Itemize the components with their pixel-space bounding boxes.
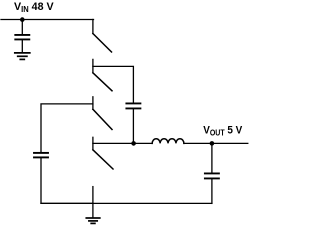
capacitor COUT xyxy=(205,173,219,178)
switch S2 terminal stub xyxy=(92,59,94,72)
wire node A branch to CFLY top xyxy=(93,66,133,102)
switch S3 terminal stub xyxy=(92,97,94,110)
capacitor C1 xyxy=(34,153,48,158)
node SW junction dot xyxy=(131,141,136,146)
svg-text:VOUT 5 V: VOUT 5 V xyxy=(203,124,242,137)
wire SW node to inductor xyxy=(93,142,152,144)
wire C1 bottom lead to ground rail xyxy=(41,158,92,203)
ground (input) xyxy=(15,53,30,60)
wire bottom ground rail xyxy=(41,202,212,204)
capacitor CFLY xyxy=(126,103,140,108)
wire CFLY bottom lead xyxy=(132,109,134,143)
switch S2 arm xyxy=(93,73,112,91)
inductor L1 xyxy=(152,139,184,144)
node VOUT junction dot xyxy=(210,141,215,146)
svg-text:VIN 48 V: VIN 48 V xyxy=(14,1,54,14)
switch S3 arm xyxy=(93,109,112,129)
wire node B branch to C1 xyxy=(41,104,93,152)
wire CIN bottom lead xyxy=(21,40,23,52)
switch S4 lower terminal stub to ground rail xyxy=(92,187,94,204)
wire COUT top lead xyxy=(211,143,213,172)
switch S4 arm xyxy=(93,150,113,169)
wire VIN top rail xyxy=(1,19,94,21)
wire inductor to VOUT rail xyxy=(184,142,248,144)
switch S4 terminal stub xyxy=(92,137,94,150)
switch S1 terminal stub xyxy=(92,20,94,34)
node VIN junction dot xyxy=(20,17,25,22)
wire COUT bottom lead xyxy=(211,179,213,203)
ground (power stage) xyxy=(92,203,94,217)
capacitor CIN xyxy=(15,35,29,40)
switch S1 arm xyxy=(93,34,112,53)
wire CIN top lead xyxy=(21,20,23,35)
